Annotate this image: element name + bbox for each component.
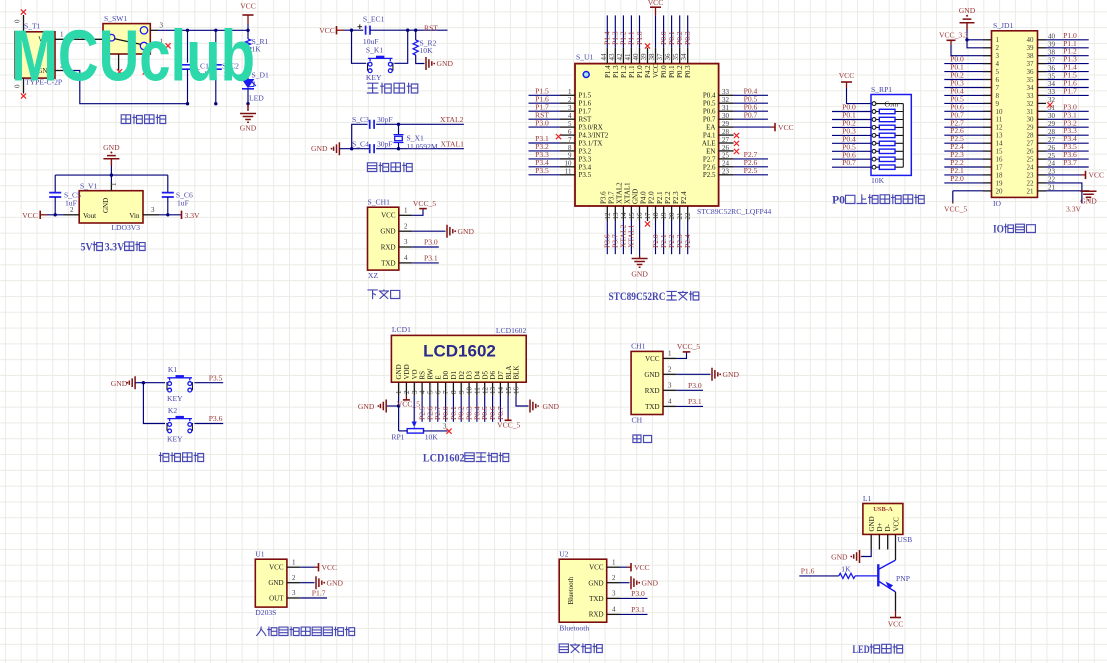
svg-text:S_EC1: S_EC1 bbox=[363, 15, 385, 24]
svg-text:1: 1 bbox=[612, 558, 616, 566]
ground (buttons) bbox=[111, 376, 144, 389]
svg-text:20: 20 bbox=[668, 212, 676, 220]
svg-text:VCC: VCC bbox=[645, 355, 660, 363]
power VCC (LDO in) bbox=[22, 211, 63, 220]
JD1 left pin 18 bbox=[944, 166, 1003, 179]
U1 top pin 35 P0.2 bbox=[672, 15, 684, 78]
wire LED cathode to rail and ground bbox=[247, 89, 249, 110]
svg-text:S_U1: S_U1 bbox=[576, 53, 594, 62]
svg-text:P0.5: P0.5 bbox=[703, 100, 716, 108]
svg-text:31: 31 bbox=[1027, 108, 1035, 116]
svg-text:21: 21 bbox=[1027, 187, 1035, 195]
svg-text:VCC: VCC bbox=[778, 123, 794, 132]
potentiometer RP1 10K bbox=[391, 423, 447, 442]
svg-text:P2.7: P2.7 bbox=[703, 155, 716, 163]
CH1 pin3 net P3.0 bbox=[399, 238, 439, 247]
svg-text:LDO3V3: LDO3V3 bbox=[111, 223, 140, 232]
wire net P0.1 to RP1 bbox=[832, 111, 871, 120]
power VCC (reset) bbox=[319, 26, 363, 35]
svg-text:37: 37 bbox=[1027, 60, 1035, 68]
wire GND to JD1 pin1 bbox=[965, 38, 983, 41]
U1 top pin 38 VCC bbox=[648, 48, 660, 78]
svg-text:41: 41 bbox=[624, 53, 632, 61]
svg-text:Bluetooth: Bluetooth bbox=[567, 576, 575, 604]
svg-text:34: 34 bbox=[1027, 84, 1035, 92]
svg-text:17: 17 bbox=[644, 212, 652, 220]
svg-text:24: 24 bbox=[722, 160, 730, 168]
svg-text:GND: GND bbox=[111, 379, 128, 388]
junction dots reset bbox=[350, 29, 418, 32]
svg-text:5: 5 bbox=[996, 68, 1000, 76]
wire LCD BLK to GND bbox=[516, 396, 529, 406]
switch S_SW1 bbox=[103, 14, 150, 62]
svg-text:BLK: BLK bbox=[513, 366, 521, 380]
wire EA to VCC bbox=[734, 126, 771, 128]
ground (LCD left) bbox=[358, 400, 386, 413]
wire XTAL2 bbox=[376, 123, 464, 125]
LCD pin 5 RW bbox=[425, 368, 434, 422]
U1 right pin 29 EA bbox=[706, 120, 733, 132]
svg-text:IO: IO bbox=[993, 224, 1004, 236]
svg-text:44: 44 bbox=[600, 53, 608, 61]
no-ERC mark RP1 pin3 bbox=[446, 429, 451, 434]
svg-text:VCC_5: VCC_5 bbox=[397, 400, 420, 409]
caption STC89C52RC主芯片 bbox=[609, 291, 699, 303]
U1 right pin 31 P0.6 bbox=[703, 102, 768, 115]
wire net P0.0 to RP1 bbox=[832, 103, 871, 112]
no-ERC marks SW1 bottom pins bbox=[117, 69, 148, 74]
svg-text:VCC_5: VCC_5 bbox=[497, 421, 520, 430]
svg-text:32: 32 bbox=[1027, 100, 1035, 108]
LCD pin 9 D2 bbox=[457, 370, 466, 421]
svg-text:1uF: 1uF bbox=[177, 199, 189, 208]
no-ERC mark U1 pin 39 bbox=[645, 43, 650, 48]
svg-text:3.3V: 3.3V bbox=[1066, 205, 1081, 214]
L1 VCC pin to transistor bbox=[896, 534, 913, 560]
svg-text:3: 3 bbox=[568, 104, 572, 112]
LCD pin 4 RS bbox=[417, 371, 426, 422]
svg-text:BLA: BLA bbox=[505, 366, 513, 380]
JD1 left pin 7 bbox=[944, 79, 999, 92]
U1 right pin 33 P0.4 bbox=[703, 87, 768, 100]
U1 bottom pin 19 P2.1 bbox=[656, 191, 668, 254]
caption 人体热释电感应模块 bbox=[257, 627, 355, 635]
U1 left pin 2 P1.6 bbox=[529, 94, 592, 107]
svg-text:P1.1: P1.1 bbox=[628, 65, 636, 78]
ground (power circuit) bbox=[240, 104, 257, 133]
power 3.3V bbox=[182, 211, 200, 220]
svg-text:42: 42 bbox=[616, 53, 624, 61]
SW1 bottom pins bbox=[119, 54, 145, 71]
svg-text:30: 30 bbox=[722, 112, 730, 120]
resistor S_R1 1K bbox=[245, 30, 268, 79]
wire net P0.4 to RP1 bbox=[832, 134, 871, 143]
svg-text:29: 29 bbox=[722, 120, 730, 128]
svg-text:K1: K1 bbox=[168, 365, 177, 374]
JD1 left pin 8 bbox=[944, 86, 999, 99]
svg-text:USB-A: USB-A bbox=[873, 506, 893, 513]
capacitor S_EC1 10uF bbox=[358, 15, 385, 46]
junction dots on rails bbox=[186, 29, 250, 106]
svg-text:VCC: VCC bbox=[634, 563, 650, 572]
svg-text:4: 4 bbox=[568, 112, 572, 120]
svg-text:3: 3 bbox=[668, 382, 672, 390]
svg-text:USB: USB bbox=[897, 535, 912, 544]
no-ERC mark JD1 pin 32 bbox=[1047, 102, 1052, 107]
ground (LCD right) bbox=[530, 400, 559, 413]
JD1 left pin 16 bbox=[944, 150, 1003, 163]
svg-text:S_RP1: S_RP1 bbox=[871, 85, 892, 94]
svg-text:GND: GND bbox=[103, 143, 120, 152]
capacitor S_C1 bbox=[182, 30, 210, 103]
wire net P0.7 to RP1 bbox=[832, 158, 871, 167]
svg-text:16: 16 bbox=[513, 387, 521, 395]
svg-text:LCD1602: LCD1602 bbox=[423, 453, 465, 465]
svg-text:16: 16 bbox=[636, 212, 644, 220]
key K1 bbox=[166, 365, 193, 403]
svg-text:P1.0: P1.0 bbox=[635, 31, 644, 45]
svg-text:GND: GND bbox=[632, 189, 640, 204]
JD1 left pin 3 bbox=[983, 52, 1000, 60]
svg-text:P4.3/INT2: P4.3/INT2 bbox=[579, 131, 609, 139]
U1 bottom pin 21 P2.3 bbox=[672, 191, 684, 254]
power VCC_5 (LCD BLA) bbox=[497, 396, 520, 430]
svg-text:D-: D- bbox=[884, 523, 892, 531]
svg-text:XTAL2: XTAL2 bbox=[440, 115, 464, 124]
connector S_CH1 XZ bbox=[368, 197, 399, 279]
svg-text:26: 26 bbox=[722, 144, 730, 152]
U1 top pin 37 P0.0 bbox=[656, 15, 668, 78]
caption 下载口 bbox=[368, 290, 400, 299]
wire emitter to VCC bbox=[895, 592, 897, 618]
svg-text:P3.1/TX: P3.1/TX bbox=[579, 139, 603, 147]
caption 5V转3.3V电路 bbox=[81, 242, 146, 254]
svg-text:S_V1: S_V1 bbox=[80, 181, 98, 190]
power VCC (EA pin) bbox=[771, 123, 794, 132]
svg-text:GND: GND bbox=[723, 370, 740, 379]
power VCC_5 (CH1) bbox=[413, 199, 436, 209]
svg-text:P0.2: P0.2 bbox=[676, 65, 684, 78]
U1 right pin 25 P2.7 bbox=[703, 150, 768, 163]
svg-text:L1: L1 bbox=[863, 494, 872, 503]
JD1 right pin 39 bbox=[1027, 39, 1089, 52]
svg-text:11: 11 bbox=[474, 387, 482, 394]
CH1 pin4 net P3.1 bbox=[399, 254, 439, 263]
svg-text:3: 3 bbox=[612, 590, 616, 598]
svg-text:GND: GND bbox=[959, 6, 976, 15]
svg-text:31: 31 bbox=[722, 104, 730, 112]
no-ERC mark U1 pin 17 bbox=[645, 221, 650, 226]
svg-text:RXD: RXD bbox=[381, 244, 396, 252]
svg-text:RXD: RXD bbox=[645, 387, 660, 395]
LCD pin 12 D5 bbox=[480, 370, 489, 421]
svg-text:D4: D4 bbox=[474, 370, 482, 379]
svg-text:37: 37 bbox=[656, 53, 664, 61]
ground (U2) bbox=[631, 576, 658, 589]
svg-text:P2.0: P2.0 bbox=[648, 191, 656, 204]
svg-text:XTAL1: XTAL1 bbox=[627, 224, 636, 248]
key K2 bbox=[166, 406, 193, 444]
svg-text:P4.2: P4.2 bbox=[644, 65, 652, 78]
svg-text:9: 9 bbox=[568, 152, 572, 160]
svg-text:12: 12 bbox=[996, 124, 1004, 132]
L1 D- pin bbox=[887, 534, 889, 549]
ground (JD1 pin21) bbox=[1046, 191, 1097, 206]
svg-text:IO: IO bbox=[993, 199, 1002, 208]
svg-text:EA: EA bbox=[706, 124, 715, 132]
svg-text:LCD1602: LCD1602 bbox=[496, 326, 527, 335]
U1 top pin 44 P1.4 bbox=[600, 15, 612, 78]
svg-text:1: 1 bbox=[996, 36, 1000, 44]
resistor R 1K bbox=[839, 564, 855, 578]
ground (CH1) bbox=[447, 225, 474, 238]
svg-text:GND: GND bbox=[1080, 197, 1097, 206]
wire T1 pin2 GND down to ground rail bbox=[55, 62, 188, 104]
LCD pin 7 D0 bbox=[441, 370, 450, 421]
wire LCD VO to RP1 wiper bbox=[412, 396, 417, 429]
JD1 left pin 17 bbox=[944, 158, 1003, 171]
U1 left pin 11 P3.5 bbox=[529, 166, 592, 179]
LCD pin 8 D1 bbox=[449, 370, 458, 421]
svg-text:30pF: 30pF bbox=[377, 115, 393, 124]
svg-text:1: 1 bbox=[668, 350, 672, 358]
LCD pin 10 D3 bbox=[464, 370, 473, 421]
svg-text:14: 14 bbox=[620, 212, 628, 220]
svg-text:14: 14 bbox=[996, 140, 1004, 148]
svg-text:GND: GND bbox=[458, 227, 475, 236]
svg-text:1: 1 bbox=[568, 88, 572, 96]
capacitor S_C3 30pF bbox=[352, 115, 393, 149]
L1 D+ pin bbox=[878, 534, 880, 549]
sensor U1 D203S bbox=[255, 550, 287, 617]
wire 3.3V (JD1 pin22) bbox=[1046, 183, 1082, 214]
no-ERC mark SW1 pin1 bbox=[165, 43, 170, 48]
JD1 left pin 20 bbox=[983, 187, 1003, 195]
ground (reset) bbox=[426, 57, 453, 70]
svg-text:3: 3 bbox=[292, 589, 296, 597]
LCD pin 16 BLK bbox=[513, 366, 521, 396]
transistor Q1 PNP bbox=[878, 560, 910, 592]
svg-text:LCD1: LCD1 bbox=[392, 325, 411, 334]
wire net P0.3 to RP1 bbox=[832, 126, 871, 135]
svg-text:LED: LED bbox=[852, 644, 869, 656]
svg-text:VCC: VCC bbox=[240, 2, 256, 11]
JD1 right pin 31 bbox=[1027, 102, 1089, 115]
wire base bbox=[855, 575, 878, 577]
LCD pin 13 D6 bbox=[488, 370, 497, 421]
U V1 pin1 GND bbox=[110, 175, 118, 191]
svg-text:10: 10 bbox=[996, 108, 1004, 116]
JD1 right pin 23 bbox=[1027, 168, 1056, 180]
svg-text:VCC_5: VCC_5 bbox=[944, 205, 967, 214]
svg-text:2: 2 bbox=[292, 574, 296, 582]
JD1 left pin 19 bbox=[944, 174, 1003, 187]
svg-text:26: 26 bbox=[1027, 148, 1035, 156]
svg-text:27: 27 bbox=[722, 136, 730, 144]
U1 top pin 41 P1.1 bbox=[624, 15, 636, 78]
svg-text:28: 28 bbox=[1027, 132, 1035, 140]
svg-text:P4.1: P4.1 bbox=[703, 131, 716, 139]
wire net P1.6 bbox=[799, 566, 839, 576]
connector S_JD1 IO bbox=[992, 21, 1038, 208]
ground (IO top) bbox=[959, 6, 983, 48]
svg-text:4: 4 bbox=[668, 398, 672, 406]
U1 bottom pin 18 P2.0 bbox=[648, 191, 660, 254]
LCD pin 3 VO bbox=[411, 369, 419, 395]
svg-text:P2.4: P2.4 bbox=[680, 191, 688, 204]
svg-text:P3.3: P3.3 bbox=[579, 155, 592, 163]
svg-text:22: 22 bbox=[1027, 179, 1035, 187]
no-ERC mark U1 pin 6 bbox=[556, 134, 561, 139]
svg-text:P2.5: P2.5 bbox=[744, 166, 758, 175]
svg-text:P0.0: P0.0 bbox=[660, 65, 668, 78]
svg-text:P3.0/RX: P3.0/RX bbox=[579, 124, 603, 132]
svg-text:KEY: KEY bbox=[366, 73, 382, 82]
LCD pin 14 D7 bbox=[496, 370, 505, 421]
JD1 right pin 22 bbox=[1027, 176, 1056, 188]
JD1 right pin 34 bbox=[1027, 79, 1089, 92]
svg-text:17: 17 bbox=[996, 163, 1004, 171]
CH pin1 to VCC_5 bbox=[663, 350, 687, 359]
svg-text:30pF: 30pF bbox=[377, 140, 393, 149]
no-ERC marks U1 right pins 28 27 26 bbox=[734, 133, 739, 154]
U1 bottom pin 16 GND bbox=[632, 189, 644, 221]
svg-text:P3.0: P3.0 bbox=[688, 381, 702, 390]
svg-text:10K: 10K bbox=[425, 433, 439, 442]
svg-text:15: 15 bbox=[996, 148, 1004, 156]
power VCC (top right) bbox=[240, 2, 256, 31]
wire net P0.6 to RP1 bbox=[832, 150, 871, 159]
JD1 left pin 6 bbox=[944, 71, 999, 84]
svg-text:P3.0: P3.0 bbox=[631, 589, 645, 598]
U1 top pin 39 P4.2 bbox=[640, 48, 652, 78]
U1 pin2 to GND bbox=[287, 574, 315, 583]
svg-text:6: 6 bbox=[434, 390, 442, 394]
svg-text:E: E bbox=[434, 375, 442, 379]
svg-text:40: 40 bbox=[1027, 36, 1035, 44]
U1 left pin 4 RST bbox=[529, 110, 593, 123]
wire K2 to P3.6 bbox=[194, 414, 223, 423]
caption P0口上拉电阻电路 bbox=[832, 195, 924, 207]
svg-text:8: 8 bbox=[568, 144, 572, 152]
JD1 right pin 27 bbox=[1027, 134, 1089, 147]
svg-text:29: 29 bbox=[1027, 124, 1035, 132]
U1 bottom pin 15 XTAL1 bbox=[624, 182, 636, 254]
svg-text:P0.7: P0.7 bbox=[842, 158, 856, 167]
key S_K1 bbox=[352, 30, 408, 82]
svg-text:GND: GND bbox=[311, 144, 328, 153]
svg-text:RS: RS bbox=[419, 371, 427, 380]
svg-text:5V: 5V bbox=[81, 242, 94, 254]
svg-text:D2: D2 bbox=[458, 370, 466, 379]
svg-text:P3.5: P3.5 bbox=[535, 166, 549, 175]
svg-text:13: 13 bbox=[612, 212, 620, 220]
svg-text:40: 40 bbox=[632, 53, 640, 61]
ground (LDO top) bbox=[103, 143, 120, 175]
no-ERC mark bottom pin S_T1 bbox=[21, 93, 26, 98]
svg-text:36: 36 bbox=[664, 53, 672, 61]
svg-text:TXD: TXD bbox=[589, 595, 603, 603]
U1 left pin 6 P4.3/INT2 bbox=[560, 128, 609, 140]
svg-text:GND: GND bbox=[395, 364, 403, 379]
power VCC (U2) bbox=[631, 563, 650, 572]
power VCC_3.3 bbox=[939, 30, 983, 55]
JD1 right pin 33 bbox=[1027, 86, 1089, 99]
svg-text:D1: D1 bbox=[450, 370, 458, 379]
JD1 right pin 32 bbox=[1027, 96, 1056, 108]
svg-text:11: 11 bbox=[565, 168, 572, 176]
svg-text:2: 2 bbox=[668, 366, 672, 374]
svg-text:13: 13 bbox=[996, 132, 1004, 140]
caption LCD1602显示模块 bbox=[423, 453, 509, 465]
svg-text:GND: GND bbox=[268, 579, 283, 587]
svg-text:21: 21 bbox=[676, 212, 684, 220]
svg-text:2: 2 bbox=[70, 206, 74, 214]
svg-text:S_K1: S_K1 bbox=[366, 45, 384, 54]
crystal S_X1 11.0592M bbox=[394, 124, 438, 151]
svg-text:MCUclub: MCUclub bbox=[11, 17, 255, 97]
CH pin3 net P3.0 bbox=[663, 381, 703, 390]
svg-text:15: 15 bbox=[505, 387, 513, 395]
svg-text:P3.6: P3.6 bbox=[209, 414, 223, 423]
svg-text:13: 13 bbox=[489, 387, 497, 395]
ground (U1 pin 16) bbox=[631, 221, 648, 279]
svg-text:GND: GND bbox=[543, 402, 560, 411]
U1 left pin 10 P3.4 bbox=[529, 158, 592, 171]
svg-text:VCC_5: VCC_5 bbox=[413, 199, 436, 208]
capacitor S_C6 1uF bbox=[162, 175, 193, 215]
svg-text:P1.0: P1.0 bbox=[636, 65, 644, 78]
svg-text:19: 19 bbox=[996, 179, 1004, 187]
svg-text:S_CH1: S_CH1 bbox=[368, 197, 391, 206]
svg-text:P2.3: P2.3 bbox=[672, 191, 680, 204]
svg-text:RST: RST bbox=[579, 116, 593, 124]
caption 按键电路 bbox=[159, 453, 203, 462]
JD1 left pin 11 bbox=[944, 110, 1002, 123]
svg-text:P3.0: P3.0 bbox=[424, 238, 438, 247]
ground (crystal) bbox=[311, 142, 369, 155]
JD1 left pin 15 bbox=[944, 142, 1003, 155]
LCD pin 1 GND bbox=[395, 364, 403, 395]
svg-text:P0.3: P0.3 bbox=[683, 31, 692, 45]
svg-text:GND: GND bbox=[868, 516, 876, 531]
svg-text:3.3V: 3.3V bbox=[105, 242, 125, 254]
svg-text:P3.5: P3.5 bbox=[579, 171, 592, 179]
svg-text:XZ: XZ bbox=[368, 271, 378, 280]
U1 top pin 43 P1.3 bbox=[608, 15, 620, 78]
resistor S_R2 10K bbox=[413, 30, 436, 63]
JD1 left pin 2 bbox=[983, 44, 1000, 52]
svg-text:D6: D6 bbox=[489, 370, 497, 379]
svg-text:VCC_3.3: VCC_3.3 bbox=[939, 30, 968, 39]
svg-text:D+: D+ bbox=[876, 522, 884, 531]
svg-text:VCC: VCC bbox=[839, 71, 855, 80]
svg-text:4: 4 bbox=[404, 254, 408, 262]
svg-text:GND: GND bbox=[644, 371, 659, 379]
caption 晶振电路 bbox=[367, 163, 412, 172]
power VCC (U1 pin 38) bbox=[648, 0, 664, 48]
svg-text:TXD: TXD bbox=[381, 259, 395, 267]
V1 pin2 Vout bbox=[54, 206, 80, 217]
svg-text:VCC: VCC bbox=[269, 564, 284, 572]
svg-text:3: 3 bbox=[404, 238, 408, 246]
CH1 pin2 to GND bbox=[399, 222, 446, 231]
svg-text:ALE: ALE bbox=[702, 139, 716, 147]
svg-text:VCC: VCC bbox=[22, 211, 38, 220]
svg-text:D3: D3 bbox=[466, 370, 474, 379]
IC S_U1 STC89C52RC_LQFP44 bbox=[575, 53, 771, 216]
JD1 right pin 26 bbox=[1027, 142, 1089, 155]
